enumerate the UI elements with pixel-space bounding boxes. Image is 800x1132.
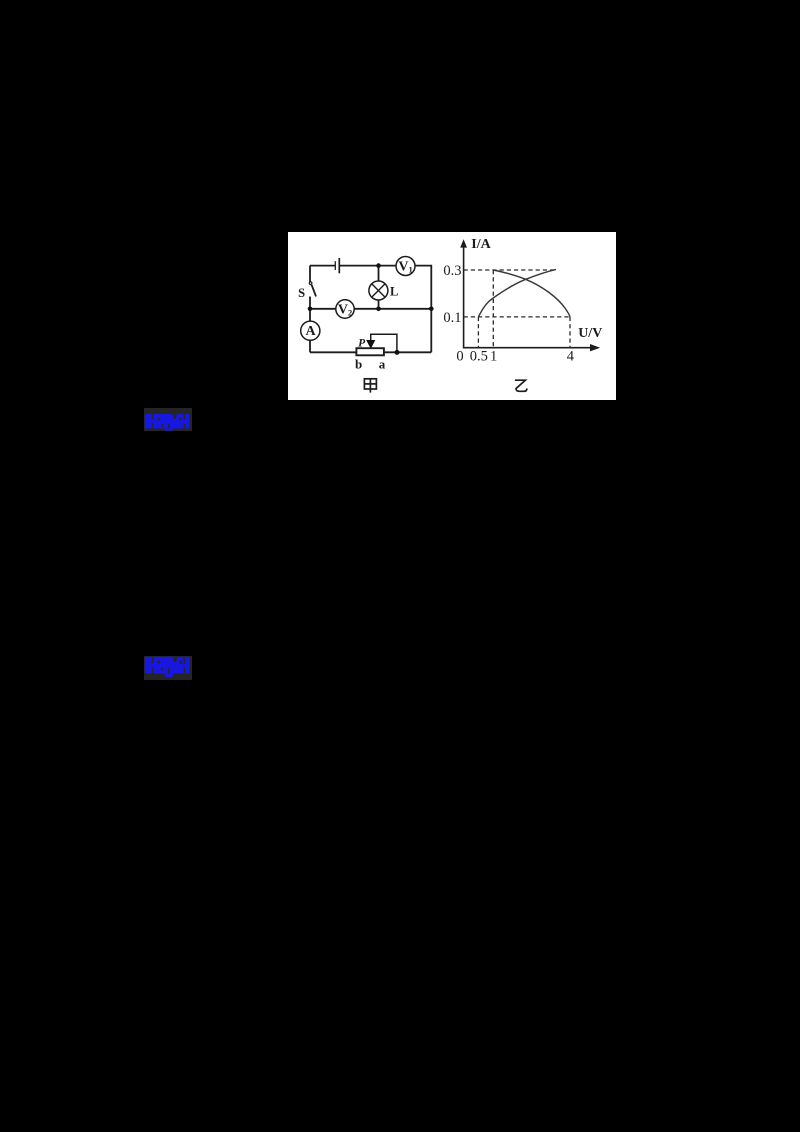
svg-text:S: S [298,286,305,300]
svg-text:4: 4 [567,349,575,365]
svg-text:b: b [355,357,362,372]
svg-text:0.1: 0.1 [443,310,461,326]
svg-text:U/V: U/V [578,326,602,341]
svg-text:A: A [305,324,316,339]
svg-text:I/A: I/A [471,237,491,252]
svg-text:L: L [390,285,398,299]
svg-text:a: a [379,357,386,372]
svg-text:P: P [358,337,366,349]
svg-text:1: 1 [490,349,497,365]
svg-text:0.5: 0.5 [470,349,488,365]
svg-text:0: 0 [456,349,463,365]
svg-text:0.3: 0.3 [443,263,461,279]
